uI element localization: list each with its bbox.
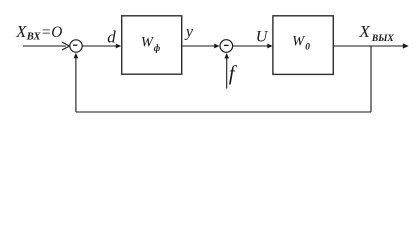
node X_BX input label — [15, 22, 62, 42]
minus sign in summer 1 — [73, 44, 77, 46]
wire feedback tap down from output — [370, 46, 372, 112]
wire feedback left rise into summer 1 — [74, 53, 79, 112]
summing junction 1 — [70, 40, 82, 52]
summing junction 2 — [220, 40, 233, 53]
block W_o (plant) — [273, 16, 333, 75]
svg-text:U: U — [256, 29, 269, 46]
minus sign in summer 2 — [224, 44, 229, 46]
wire y: block W_f to summer 2 — [182, 44, 220, 49]
svg-text:0: 0 — [305, 43, 310, 53]
node X_BbIX output label — [358, 22, 394, 44]
W_f block label — [141, 35, 161, 53]
wire d: summer 1 to block W_f — [82, 44, 121, 49]
wire output X_BbIX — [334, 43, 409, 48]
wire feedback bottom run — [76, 111, 371, 113]
W_o block label — [292, 34, 310, 53]
svg-text:d: d — [107, 28, 116, 47]
svg-text:X: X — [358, 22, 370, 41]
svg-text:X: X — [15, 22, 27, 41]
wire input arrow into summer 1 — [23, 42, 69, 50]
block W_f (regulator) — [122, 16, 182, 74]
svg-text:ВХ: ВХ — [26, 32, 42, 43]
svg-text:ВЫХ: ВЫХ — [371, 34, 395, 44]
svg-text:ф: ф — [154, 43, 161, 53]
svg-text:y: y — [184, 24, 194, 41]
wire U: summer 2 to block W_o — [233, 44, 273, 49]
svg-text:W: W — [292, 34, 306, 50]
svg-text:=О: =О — [41, 24, 62, 41]
wire f disturbance into summer 2 — [224, 53, 229, 88]
